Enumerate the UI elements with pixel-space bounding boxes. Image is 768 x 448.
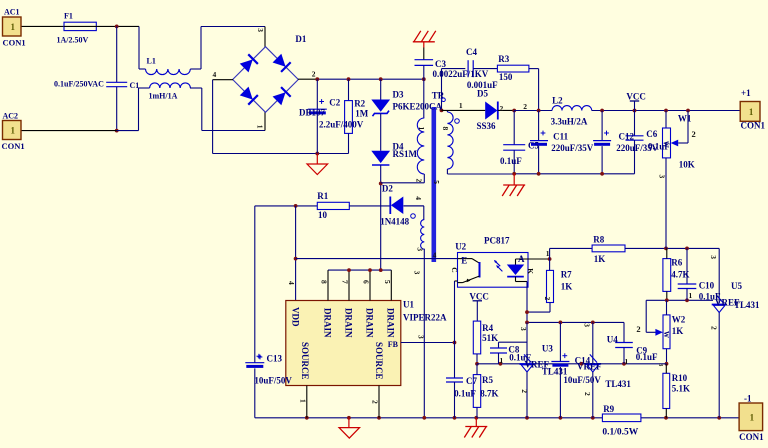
svg-text:1N4148: 1N4148 (380, 216, 409, 226)
svg-text:FB: FB (388, 340, 399, 349)
svg-text:C: C (450, 267, 459, 272)
svg-text:51K: 51K (482, 333, 498, 343)
svg-text:DRAIN: DRAIN (364, 308, 374, 338)
svg-text:K: K (526, 268, 535, 274)
svg-text:D3: D3 (393, 89, 404, 99)
svg-text:C2: C2 (329, 98, 340, 108)
svg-text:R10: R10 (672, 373, 688, 383)
svg-text:5: 5 (383, 280, 392, 284)
svg-text:3: 3 (412, 271, 421, 275)
svg-text:1: 1 (625, 357, 629, 366)
svg-text:1: 1 (11, 126, 16, 136)
svg-text:10K: 10K (679, 159, 695, 169)
svg-text:C11: C11 (553, 132, 569, 142)
svg-text:W: W (662, 141, 670, 148)
svg-text:CON1: CON1 (2, 141, 25, 151)
svg-text:R8: R8 (593, 235, 604, 245)
svg-text:U3: U3 (542, 344, 553, 354)
svg-text:0.1uF: 0.1uF (509, 353, 531, 363)
svg-text:E: E (461, 256, 467, 266)
svg-text:0.1uF/250VAC: 0.1uF/250VAC (54, 80, 104, 89)
svg-text:5.1K: 5.1K (672, 383, 690, 393)
svg-text:U4: U4 (607, 335, 618, 345)
svg-text:1K: 1K (672, 326, 684, 336)
svg-text:W1: W1 (678, 114, 692, 124)
svg-text:1: 1 (417, 127, 426, 131)
svg-text:3: 3 (709, 255, 718, 259)
svg-text:0.1uF: 0.1uF (636, 352, 658, 362)
svg-text:6: 6 (362, 280, 371, 284)
svg-text:7: 7 (341, 280, 350, 284)
svg-text:2.2uF/400V: 2.2uF/400V (319, 119, 364, 129)
svg-text:2: 2 (520, 389, 529, 393)
svg-text:1M: 1M (355, 109, 369, 119)
svg-text:U2: U2 (455, 242, 466, 252)
svg-text:VIPER22A: VIPER22A (403, 312, 447, 322)
svg-text:TL431: TL431 (734, 300, 760, 310)
svg-text:1mH/1A: 1mH/1A (149, 92, 178, 101)
svg-text:DRAIN: DRAIN (343, 308, 353, 338)
svg-text:4: 4 (433, 251, 437, 260)
svg-text:L2: L2 (552, 95, 563, 105)
svg-text:DB107: DB107 (299, 107, 326, 117)
svg-text:SOURCE: SOURCE (374, 342, 384, 380)
svg-text:-1: -1 (744, 394, 752, 404)
svg-text:4: 4 (287, 281, 296, 285)
svg-text:R3: R3 (498, 54, 509, 64)
svg-text:DRAIN: DRAIN (386, 308, 396, 338)
svg-text:3: 3 (657, 363, 663, 366)
svg-text:0.1/0.5W: 0.1/0.5W (602, 428, 638, 438)
svg-text:10: 10 (318, 210, 328, 220)
svg-text:1K: 1K (561, 282, 573, 292)
svg-text:R2: R2 (354, 99, 365, 109)
svg-text:0.1uF: 0.1uF (500, 156, 522, 166)
svg-text:R4: R4 (482, 323, 493, 333)
svg-text:0.1uF: 0.1uF (454, 389, 476, 399)
svg-text:C4: C4 (466, 47, 477, 57)
svg-text:VDD: VDD (291, 307, 301, 327)
svg-text:1: 1 (459, 101, 463, 110)
svg-text:2: 2 (636, 324, 640, 334)
svg-text:150: 150 (499, 72, 513, 82)
svg-text:C6: C6 (646, 129, 657, 139)
svg-text:4: 4 (414, 196, 423, 200)
svg-text:R6: R6 (671, 258, 682, 268)
svg-text:1: 1 (298, 399, 307, 403)
svg-text:10uF/50V: 10uF/50V (563, 375, 601, 385)
svg-text:DRAIN: DRAIN (322, 308, 332, 338)
svg-text:CON1: CON1 (3, 38, 26, 48)
svg-text:VCC: VCC (469, 292, 489, 302)
svg-text:3: 3 (256, 28, 265, 32)
svg-text:AC1: AC1 (4, 8, 20, 17)
svg-text:220uF/35V: 220uF/35V (551, 143, 594, 153)
svg-text:U1: U1 (403, 299, 414, 309)
svg-text:VCC: VCC (626, 91, 646, 101)
svg-text:C7: C7 (466, 376, 477, 386)
svg-text:2: 2 (543, 297, 552, 301)
svg-text:C1: C1 (130, 81, 140, 90)
svg-text:1: 1 (750, 412, 755, 422)
svg-text:2: 2 (312, 70, 316, 79)
svg-text:C10: C10 (699, 280, 715, 290)
svg-text:CON1: CON1 (739, 432, 764, 442)
svg-text:C3: C3 (435, 59, 446, 69)
svg-text:TR: TR (432, 90, 445, 100)
svg-text:3: 3 (658, 175, 667, 179)
svg-text:D5: D5 (477, 88, 488, 98)
svg-text:3: 3 (417, 335, 426, 339)
svg-text:1: 1 (11, 22, 16, 32)
svg-text:R9: R9 (603, 404, 614, 414)
svg-text:RS1M: RS1M (393, 149, 418, 159)
svg-text:CON1: CON1 (741, 121, 766, 131)
svg-text:F1: F1 (64, 12, 73, 21)
svg-text:SOURCE: SOURCE (300, 342, 310, 380)
svg-text:1: 1 (500, 356, 504, 365)
svg-text:8: 8 (441, 127, 450, 131)
svg-text:2: 2 (710, 326, 719, 330)
svg-text:L1: L1 (147, 57, 156, 66)
svg-text:C12: C12 (619, 132, 635, 142)
svg-text:W: W (662, 331, 670, 338)
svg-text:A: A (518, 254, 525, 264)
svg-text:1: 1 (546, 249, 550, 258)
svg-text:+1: +1 (741, 88, 751, 98)
svg-text:U5: U5 (731, 281, 742, 291)
svg-text:3: 3 (416, 247, 425, 251)
svg-text:2: 2 (583, 392, 592, 396)
svg-text:8.7K: 8.7K (480, 389, 498, 399)
svg-text:10uF/50V: 10uF/50V (254, 376, 292, 386)
svg-text:C14: C14 (575, 355, 591, 365)
svg-text:R7: R7 (561, 269, 572, 279)
svg-text:1: 1 (689, 291, 693, 300)
svg-text:2: 2 (692, 129, 696, 139)
svg-text:TL431: TL431 (605, 379, 631, 389)
svg-text:D2: D2 (382, 183, 393, 193)
svg-text:3: 3 (582, 323, 591, 327)
svg-text:1K: 1K (594, 254, 606, 264)
svg-text:SS36: SS36 (477, 121, 497, 131)
svg-text:5: 5 (432, 180, 441, 184)
svg-text:W2: W2 (672, 315, 686, 325)
svg-text:PC817: PC817 (484, 236, 510, 246)
svg-text:2: 2 (414, 179, 423, 183)
svg-text:AC2: AC2 (3, 112, 19, 121)
svg-text:3: 3 (519, 327, 528, 331)
svg-text:R1: R1 (317, 191, 328, 201)
svg-text:1: 1 (255, 125, 264, 129)
svg-text:4.7K: 4.7K (671, 270, 689, 280)
svg-text:2: 2 (371, 400, 380, 404)
svg-text:1: 1 (749, 107, 754, 117)
svg-text:R5: R5 (482, 375, 493, 385)
svg-text:1A/2.50V: 1A/2.50V (57, 36, 89, 45)
svg-text:4: 4 (213, 70, 217, 79)
svg-text:2: 2 (500, 104, 504, 113)
svg-text:P6KE200CA: P6KE200CA (393, 102, 443, 112)
svg-text:D1: D1 (295, 34, 306, 44)
svg-text:C13: C13 (267, 354, 283, 364)
svg-text:8: 8 (320, 280, 329, 284)
svg-text:2: 2 (523, 102, 527, 111)
svg-text:0.0022uF/1KV: 0.0022uF/1KV (433, 69, 489, 79)
svg-text:C5: C5 (528, 140, 539, 150)
svg-text:3.3uH/2A: 3.3uH/2A (551, 117, 588, 127)
